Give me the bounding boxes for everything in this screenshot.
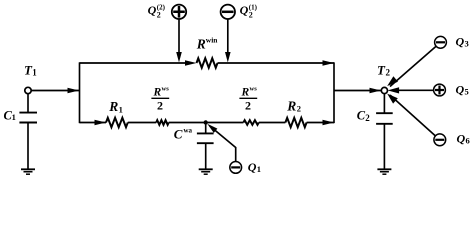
svg-text:ws: ws xyxy=(250,86,258,93)
svg-text:R: R xyxy=(108,99,118,114)
svg-text:win: win xyxy=(206,36,219,45)
svg-text:1: 1 xyxy=(257,164,261,174)
svg-text:2: 2 xyxy=(157,98,163,112)
svg-text:1: 1 xyxy=(32,68,37,78)
svg-text:5: 5 xyxy=(465,87,469,97)
svg-text:(1): (1) xyxy=(249,4,258,12)
svg-text:Q: Q xyxy=(456,34,465,48)
svg-text:2: 2 xyxy=(386,68,391,78)
svg-text:6: 6 xyxy=(466,136,470,146)
svg-text:C: C xyxy=(174,126,183,141)
svg-text:wa: wa xyxy=(184,126,193,134)
svg-text:(2): (2) xyxy=(157,4,166,12)
svg-text:Q: Q xyxy=(148,3,157,17)
svg-text:1: 1 xyxy=(119,104,123,114)
svg-text:1: 1 xyxy=(12,112,16,122)
svg-text:Q: Q xyxy=(248,160,257,174)
svg-text:2: 2 xyxy=(297,104,301,114)
svg-text:Q: Q xyxy=(240,3,249,17)
svg-text:R: R xyxy=(153,87,162,99)
svg-text:R: R xyxy=(286,98,296,113)
svg-text:2: 2 xyxy=(245,98,251,112)
svg-text:R: R xyxy=(196,37,206,52)
svg-text:Q: Q xyxy=(457,131,466,145)
svg-text:2: 2 xyxy=(249,11,253,20)
svg-text:ws: ws xyxy=(162,86,170,93)
svg-text:3: 3 xyxy=(465,39,469,49)
svg-text:2: 2 xyxy=(365,113,370,123)
svg-text:2: 2 xyxy=(157,11,161,20)
svg-text:R: R xyxy=(241,87,250,99)
svg-text:Q: Q xyxy=(456,82,465,96)
